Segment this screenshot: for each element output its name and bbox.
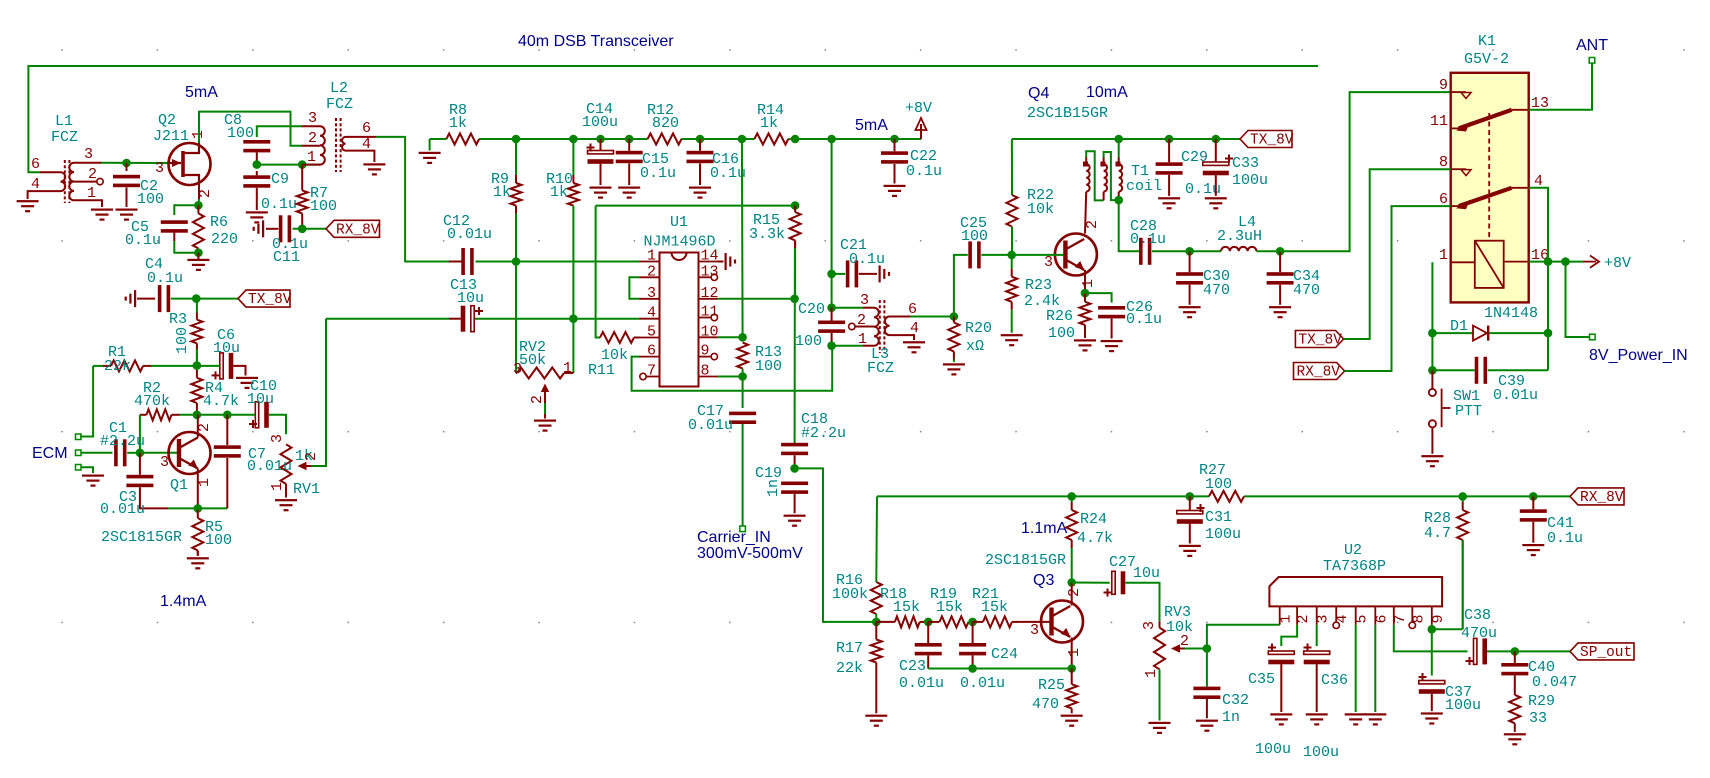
label ANT bbox=[1576, 37, 1608, 54]
resistor R3 bbox=[191, 299, 202, 366]
Q1 pin 3 number bbox=[160, 454, 169, 471]
svg-text:9: 9 bbox=[701, 343, 710, 360]
svg-text:4: 4 bbox=[31, 176, 40, 193]
connector pin Carrier_IN bbox=[740, 526, 746, 532]
connector pin ECM bottom bbox=[76, 465, 82, 471]
L3 pin number 1 bbox=[858, 331, 867, 348]
svg-text:0.1u: 0.1u bbox=[1130, 231, 1166, 248]
label ECM bbox=[32, 445, 68, 462]
node TX rail junction C29 bbox=[1165, 135, 1174, 144]
wire Q2 source pin bbox=[197, 185, 200, 205]
resistor R28 bbox=[1457, 496, 1468, 629]
capacitor C41 bbox=[1520, 496, 1547, 542]
U2 pin 4 stub bbox=[1333, 606, 1339, 628]
ground below U2 pin 5 bbox=[1345, 713, 1367, 725]
potentiometer RV3 bbox=[1154, 621, 1185, 669]
wire relay pin 4 to +8V row bbox=[1529, 188, 1548, 262]
label C1 value #2.2u bbox=[100, 433, 145, 450]
U2 pin 1 stub bbox=[1279, 606, 1281, 624]
U1 pin number 1 bbox=[647, 248, 656, 265]
resistor R22 bbox=[1007, 195, 1018, 255]
svg-text:470: 470 bbox=[1293, 282, 1320, 299]
label R11 bbox=[588, 362, 615, 379]
svg-text:100: 100 bbox=[227, 125, 254, 142]
wire ANT to relay pin 13 bbox=[1529, 63, 1592, 110]
U1 pin number 5 bbox=[647, 324, 656, 341]
RV3 pin 3 number bbox=[1141, 621, 1158, 630]
wire R1 left to ECM pin bbox=[80, 366, 93, 437]
T1 pin 2 number rotated bbox=[1084, 220, 1101, 229]
svg-text:3: 3 bbox=[1315, 614, 1332, 623]
wire R6 to ground bbox=[197, 253, 199, 260]
L3 pin 4 stub bbox=[890, 335, 915, 340]
svg-text:C11: C11 bbox=[273, 249, 300, 266]
label C7 value 0.01u bbox=[247, 458, 292, 475]
label 8V_Power_IN bbox=[1589, 347, 1688, 364]
label R14 value 1k bbox=[760, 115, 778, 132]
diode D1 1N4148 bbox=[1473, 326, 1548, 341]
label C40 bbox=[1528, 659, 1555, 676]
svg-text:8: 8 bbox=[701, 363, 710, 380]
wire Q3 emitter bbox=[1071, 638, 1073, 669]
U1 pin 10 stub bbox=[699, 336, 718, 338]
node C24 top junction bbox=[968, 618, 977, 627]
svg-text:7: 7 bbox=[1392, 614, 1409, 623]
label C16 value 0.1u bbox=[710, 165, 746, 182]
svg-text:R24: R24 bbox=[1080, 511, 1107, 528]
connector pin 8V_Power_IN bbox=[1590, 334, 1596, 340]
node RV3/C32/U2pin1 junction bbox=[1203, 644, 1212, 653]
resistor R20 bbox=[948, 317, 959, 363]
svg-text:C9: C9 bbox=[271, 171, 289, 188]
svg-text:4: 4 bbox=[362, 136, 371, 153]
wire RX_8V audio rail bbox=[877, 495, 1570, 497]
wire antenna path to relay pin 9 bbox=[1280, 92, 1451, 251]
label 10mA bbox=[1086, 84, 1128, 101]
wire C21 riser bbox=[831, 139, 833, 274]
label C22 bbox=[910, 148, 937, 165]
resistor R27 bbox=[1209, 491, 1244, 502]
label C24 value 0.01u bbox=[960, 675, 1005, 692]
svg-text:C32: C32 bbox=[1222, 692, 1249, 709]
node C10 junction bbox=[223, 411, 232, 420]
label R1 bbox=[108, 344, 126, 361]
wire pin9 to C37 bbox=[1431, 629, 1433, 675]
resistor R17 bbox=[871, 622, 882, 713]
wire U1 pin 14 stub to sideways ground bbox=[718, 261, 724, 263]
U1 pin number 8 bbox=[701, 363, 710, 380]
label C29 bbox=[1181, 149, 1208, 166]
transformer L1 pin 4 stub + bend bbox=[28, 191, 61, 199]
ground below RV3 bbox=[1149, 722, 1171, 734]
resistor R26 bbox=[1080, 293, 1091, 338]
node C20 top junction bbox=[827, 303, 836, 312]
svg-text:4: 4 bbox=[647, 305, 656, 322]
svg-text:1: 1 bbox=[1066, 648, 1083, 657]
ground below C29 bbox=[1158, 197, 1180, 209]
L2 pin 1 stub bbox=[302, 164, 320, 166]
label C14 bbox=[586, 101, 613, 118]
label C2 bbox=[140, 178, 158, 195]
relay pin 8 stub + NO marker bbox=[1451, 169, 1471, 175]
capacitor C39 bbox=[1475, 357, 1548, 384]
label R4 value 4.7k bbox=[203, 393, 239, 410]
transistor Q1 2SC1815 bbox=[169, 432, 211, 474]
label R18 bbox=[880, 586, 907, 603]
wire pin6 loop around U1 bottom bbox=[632, 346, 833, 391]
label R6 bbox=[210, 214, 228, 231]
ground below L2 pin 4 bbox=[363, 163, 385, 175]
resistor R11 bbox=[600, 332, 640, 343]
label +8V right bbox=[1604, 255, 1631, 272]
capacitor C26 bbox=[1098, 306, 1125, 339]
svg-text:10u: 10u bbox=[457, 290, 484, 307]
label C34 bbox=[1293, 268, 1320, 285]
svg-text:Q2: Q2 bbox=[158, 112, 176, 129]
svg-text:C33: C33 bbox=[1232, 155, 1259, 172]
label 2SC1815GR Q3 bbox=[985, 552, 1066, 569]
label C7 bbox=[248, 446, 266, 463]
label C24 bbox=[991, 646, 1018, 663]
label C21 bbox=[840, 237, 867, 254]
Q2 pin 1 drain number bbox=[190, 130, 207, 139]
U2 pin number 4 bbox=[1334, 614, 1351, 623]
ground below R23 bbox=[1001, 334, 1023, 346]
ground below L1 pin 1 bbox=[91, 209, 113, 221]
resistor R23 bbox=[1006, 255, 1017, 333]
wire RV1 pin1 to ground bbox=[285, 484, 287, 498]
node C18/C19 junction bbox=[790, 464, 799, 473]
ground below C37 bbox=[1421, 712, 1443, 724]
wire U1 pin 8 wire bbox=[718, 376, 743, 378]
label C39 value 0.01u bbox=[1493, 387, 1538, 404]
svg-text:8: 8 bbox=[1410, 614, 1427, 623]
resistor R6 bbox=[193, 205, 204, 252]
wire C9 row to L2 pin 1 bbox=[257, 164, 320, 166]
wire U2 pin 7 to C38 bbox=[1394, 625, 1468, 652]
svg-text:SP_out: SP_out bbox=[1580, 645, 1632, 661]
svg-text:RX_8V: RX_8V bbox=[336, 222, 380, 238]
L1 pin number 2 bbox=[88, 166, 97, 183]
label R24 bbox=[1080, 511, 1107, 528]
label R17 bbox=[836, 640, 863, 657]
U1 pin 1 stub bbox=[640, 261, 660, 263]
node C12/R9 junction bbox=[512, 257, 521, 266]
svg-text:R11: R11 bbox=[588, 362, 615, 379]
svg-text:470: 470 bbox=[1203, 282, 1230, 299]
svg-text:4.7: 4.7 bbox=[1424, 525, 1451, 542]
transistor Q2 J211 JFET bbox=[169, 143, 211, 185]
wire R11 riser bbox=[596, 206, 600, 338]
net label TX_8V relay bbox=[1295, 331, 1343, 349]
svg-text:7: 7 bbox=[647, 363, 656, 380]
svg-text:+8V: +8V bbox=[905, 100, 932, 117]
U1 pin number 9 bbox=[701, 343, 710, 360]
svg-text:R6: R6 bbox=[210, 214, 228, 231]
RV1 pin 3 number bbox=[269, 434, 286, 443]
svg-text:2SC1B15GR: 2SC1B15GR bbox=[1027, 105, 1108, 122]
node pin10/R13 junction bbox=[738, 333, 747, 342]
svg-text:ECM: ECM bbox=[32, 445, 68, 462]
svg-text:6: 6 bbox=[647, 343, 656, 360]
wire T1 coil1 top bridge bbox=[1086, 151, 1103, 200]
svg-text:1k: 1k bbox=[760, 115, 778, 132]
label R11 value 10k bbox=[601, 347, 628, 364]
label Q2 bbox=[158, 112, 176, 129]
label C18 value #2.2u bbox=[801, 425, 846, 442]
label C33 bbox=[1232, 155, 1259, 172]
L2 pin number 3 bbox=[308, 110, 317, 127]
svg-text:FCZ: FCZ bbox=[867, 360, 894, 377]
label C27 bbox=[1109, 554, 1136, 571]
label C25 bbox=[960, 215, 987, 232]
svg-text:1.4mA: 1.4mA bbox=[160, 593, 207, 610]
label FCZ L3 bbox=[867, 360, 894, 377]
RV3 pin 2 number bbox=[1180, 633, 1189, 650]
label C33 value 100u bbox=[1232, 172, 1268, 189]
node Q2 source junction bbox=[194, 201, 203, 210]
label R4 bbox=[205, 380, 223, 397]
label C9 bbox=[271, 171, 289, 188]
label R7 value 100 bbox=[310, 198, 337, 215]
capacitor C22 bbox=[881, 139, 908, 184]
U2 pin number 6 bbox=[1373, 614, 1390, 623]
transformer L3 bbox=[874, 300, 890, 353]
node rail junction R9 bbox=[512, 135, 521, 144]
Q3 pin 1 number bbox=[1066, 648, 1083, 657]
wire Q4 base bbox=[1012, 254, 1064, 256]
node C8/C9 junction bbox=[252, 160, 261, 169]
L3 pin number 4 bbox=[910, 320, 919, 337]
svg-text:1: 1 bbox=[1439, 247, 1448, 264]
svg-text:2.3uH: 2.3uH bbox=[1217, 228, 1262, 245]
svg-text:Q4: Q4 bbox=[1028, 85, 1049, 102]
svg-text:C24: C24 bbox=[991, 646, 1018, 663]
label C8 bbox=[224, 112, 242, 129]
resistor R25 bbox=[1066, 669, 1077, 714]
wire Q1 emitter bbox=[197, 469, 199, 509]
svg-text:12: 12 bbox=[701, 285, 719, 302]
label 1.4mA bbox=[160, 593, 207, 610]
label R24 value 4.7k bbox=[1077, 530, 1113, 547]
L1 pin 3 stub bbox=[74, 162, 101, 164]
wire C17 to Carrier_IN bbox=[742, 424, 744, 526]
capacitor C27 polarized bbox=[1104, 571, 1126, 596]
U1 pin number 13 bbox=[701, 263, 719, 280]
svg-text:10u: 10u bbox=[213, 340, 240, 357]
capacitor C35 polarized bbox=[1268, 644, 1294, 713]
label R12 value 820 bbox=[652, 115, 679, 132]
svg-text:K1: K1 bbox=[1478, 33, 1496, 50]
label C10 bbox=[250, 378, 277, 395]
label C13 value 10u bbox=[457, 290, 484, 307]
svg-text:C35: C35 bbox=[1248, 671, 1275, 688]
label PTT bbox=[1455, 403, 1482, 420]
label R22 bbox=[1027, 187, 1054, 204]
label Q1 bbox=[170, 477, 188, 494]
svg-text:1k: 1k bbox=[449, 115, 467, 132]
svg-text:3.3k: 3.3k bbox=[749, 226, 785, 243]
svg-text:0.1u: 0.1u bbox=[710, 165, 746, 182]
ground below R25 bbox=[1061, 715, 1083, 727]
U2 pin 8 stub bbox=[1409, 606, 1415, 628]
label R26 value 100 bbox=[1048, 325, 1075, 342]
wire C10 leads bbox=[227, 415, 286, 435]
wire C2 top lead bbox=[126, 163, 128, 171]
label R28 bbox=[1424, 510, 1451, 527]
U2 pin 2 stub bbox=[1296, 606, 1298, 624]
svg-text:3: 3 bbox=[513, 361, 522, 378]
label C20 bbox=[798, 301, 825, 318]
label C32 value 1n bbox=[1222, 709, 1240, 726]
ground below L1 pin 4 bbox=[17, 200, 39, 212]
U2 pin number 3 bbox=[1315, 614, 1332, 623]
power symbol +8V arrow bbox=[916, 118, 927, 139]
capacitor C40 bbox=[1501, 651, 1528, 695]
RV1 pin 1 number bbox=[269, 482, 286, 491]
ground below C15 bbox=[618, 187, 640, 199]
node +8V/D1 junction bbox=[1544, 257, 1553, 266]
L2 pin number 4 bbox=[362, 136, 371, 153]
svg-text:0.1u: 0.1u bbox=[906, 163, 942, 180]
svg-text:3: 3 bbox=[647, 285, 656, 302]
L1 pin 1 stub bbox=[74, 200, 102, 207]
svg-text:10k: 10k bbox=[1027, 201, 1054, 218]
label R13 value 100 bbox=[755, 358, 782, 375]
wire R5 to ground bbox=[197, 551, 199, 556]
node C24 bottom junction bbox=[968, 664, 977, 673]
capacitor C14 polarized bbox=[587, 139, 614, 185]
wire C4 left lead bbox=[137, 298, 155, 300]
IC U2 TA7368P body bbox=[1269, 577, 1442, 606]
node Q3 collector junction bbox=[1067, 578, 1076, 587]
label 5mA mid bbox=[855, 117, 888, 134]
node rail junction C16 bbox=[696, 135, 705, 144]
label C16 bbox=[712, 151, 739, 168]
RV2 pin 1 number bbox=[563, 360, 572, 377]
wire SW1 to ground bbox=[1431, 427, 1433, 453]
U1 pin 4 stub bbox=[640, 318, 660, 320]
node T1/Q4 collector junction bbox=[1114, 196, 1123, 205]
svg-text:2: 2 bbox=[1180, 633, 1189, 650]
wire Q3 base bbox=[1033, 621, 1050, 623]
svg-text:22k: 22k bbox=[836, 660, 863, 677]
relay K1 body bbox=[1451, 73, 1529, 303]
svg-text:U1: U1 bbox=[670, 214, 688, 231]
svg-text:470: 470 bbox=[1032, 696, 1059, 713]
label R9 bbox=[491, 171, 509, 188]
U2 pin number 5 bbox=[1354, 614, 1371, 623]
resistor R18 bbox=[876, 616, 928, 627]
label G5V-2 bbox=[1464, 51, 1509, 68]
wire R9 bottom to RV2 pin 3 bbox=[515, 262, 517, 374]
resistor R24 bbox=[1066, 496, 1077, 582]
wire Q2 drain to L2 pin 2 bbox=[199, 112, 302, 146]
svg-text:0.047: 0.047 bbox=[1532, 674, 1577, 691]
svg-text:0.01u: 0.01u bbox=[688, 417, 733, 434]
svg-text:1k: 1k bbox=[550, 184, 568, 201]
wire C19 to ground bbox=[794, 494, 796, 513]
capacitor C4 bbox=[158, 285, 170, 312]
wire rail left drop bbox=[429, 139, 431, 151]
wire T1 coil3 bottom bbox=[1118, 192, 1120, 201]
wire C6 leads bbox=[197, 366, 246, 376]
relay coil box bbox=[1475, 241, 1504, 288]
node D1 anode junction bbox=[1428, 329, 1437, 338]
svg-text:TX_8V: TX_8V bbox=[248, 292, 292, 308]
label C19 bbox=[755, 465, 782, 482]
resistor R10 bbox=[568, 139, 579, 206]
label C2 value 100 bbox=[137, 191, 164, 208]
svg-text:0.01u: 0.01u bbox=[1493, 387, 1538, 404]
capacitor C31 polarized bbox=[1177, 496, 1205, 543]
transformer L2 bbox=[320, 118, 346, 172]
wire R22 riser bbox=[1011, 139, 1013, 195]
node R1/R3/R4/C6 junction bbox=[193, 361, 202, 370]
node C30 junction bbox=[1185, 247, 1194, 256]
label R15 value 3.3k bbox=[749, 226, 785, 243]
svg-text:100u: 100u bbox=[1205, 526, 1241, 543]
label C31 bbox=[1205, 509, 1232, 526]
label FCZ L1 bbox=[51, 129, 78, 146]
node rail junction C41 bbox=[1529, 492, 1538, 501]
wire C39 row bbox=[1432, 333, 1474, 370]
svg-text:R26: R26 bbox=[1046, 308, 1073, 325]
relay pin number 16 bbox=[1531, 247, 1549, 264]
label R7 bbox=[310, 185, 328, 202]
U1 pin 7 stub bbox=[640, 373, 660, 379]
label R26 bbox=[1046, 308, 1073, 325]
label R10 bbox=[546, 171, 573, 188]
wire relay pin 1 to SW1 bbox=[1431, 370, 1433, 388]
ground below C30 bbox=[1179, 306, 1201, 318]
svg-text:22k: 22k bbox=[104, 358, 131, 375]
svg-text:100: 100 bbox=[1205, 476, 1232, 493]
transistor Q4 2SC1815 bbox=[1055, 234, 1097, 276]
L1 pin 2 stub with open circle bbox=[74, 178, 103, 184]
label C36 bbox=[1321, 672, 1348, 689]
svg-text:2: 2 bbox=[1066, 588, 1083, 597]
label L2 bbox=[330, 80, 348, 97]
svg-text:2: 2 bbox=[1295, 614, 1312, 623]
label R27 value 100 bbox=[1205, 476, 1232, 493]
node C20 bottom junction bbox=[827, 341, 836, 350]
capacitor C12 bbox=[461, 248, 473, 275]
ground below C34 bbox=[1269, 306, 1291, 318]
node Q1 collector junction bbox=[193, 411, 202, 420]
label C5 bbox=[131, 219, 149, 236]
wire L1 pin 3 to Q2 gate bbox=[101, 162, 169, 164]
wire T1 coil2 top bridge bbox=[1104, 152, 1119, 200]
node R6 bottom junction bbox=[194, 248, 203, 257]
wire base wire bbox=[140, 452, 177, 454]
svg-text:100: 100 bbox=[961, 228, 988, 245]
label T1 bbox=[1131, 163, 1149, 180]
capacitor C5 bbox=[161, 220, 199, 252]
relay pin number 8 bbox=[1439, 154, 1448, 171]
label R15 bbox=[753, 212, 780, 229]
label C34 value 470 bbox=[1293, 282, 1320, 299]
ground below C41 bbox=[1522, 544, 1544, 556]
node rail junction R10 bbox=[569, 135, 578, 144]
svg-text:2: 2 bbox=[88, 166, 97, 183]
label 5mA top left bbox=[185, 84, 218, 101]
label FCZ L2 bbox=[326, 96, 353, 113]
label R18 value 15k bbox=[893, 599, 920, 616]
wire C38 to SP_out bbox=[1487, 650, 1570, 652]
U1 pin number 6 bbox=[647, 343, 656, 360]
label Carrier_IN bbox=[697, 529, 771, 546]
